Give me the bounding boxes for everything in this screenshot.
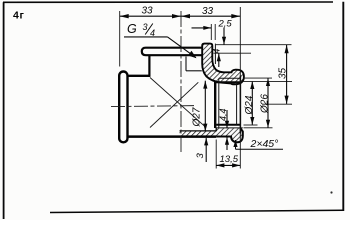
svg-text:35: 35 — [278, 67, 289, 79]
svg-text:33: 33 — [202, 6, 214, 17]
svg-text:Ø27: Ø27 — [192, 107, 203, 127]
svg-text:Ø26: Ø26 — [260, 94, 271, 114]
svg-text:2,5: 2,5 — [218, 19, 233, 30]
svg-text:4,4: 4,4 — [218, 108, 228, 121]
svg-text:4г: 4г — [13, 9, 24, 21]
svg-text:33: 33 — [142, 5, 154, 16]
svg-text:4: 4 — [212, 49, 222, 54]
svg-text:3: 3 — [195, 153, 206, 159]
svg-text:Ø24: Ø24 — [244, 95, 255, 115]
svg-text:4: 4 — [150, 28, 155, 38]
svg-text:G: G — [127, 22, 137, 36]
svg-text:3: 3 — [143, 22, 148, 32]
svg-text:2×45°: 2×45° — [250, 138, 279, 150]
svg-text:13,5: 13,5 — [220, 154, 239, 165]
